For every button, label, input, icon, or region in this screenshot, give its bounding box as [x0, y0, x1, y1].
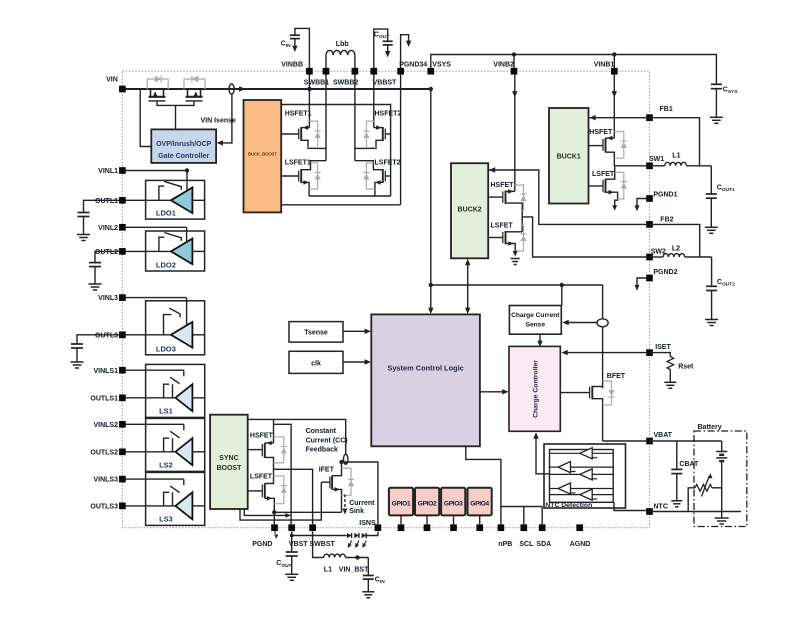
svg-text:L2: L2: [672, 245, 680, 252]
svg-text:System Control Logic: System Control Logic: [387, 363, 463, 372]
svg-text:PGND34: PGND34: [399, 62, 427, 69]
svg-text:VIN Isense: VIN Isense: [201, 117, 237, 124]
svg-text:VINLS3: VINLS3: [93, 477, 118, 484]
svg-text:VINLS2: VINLS2: [93, 422, 118, 429]
svg-text:Charge Controller: Charge Controller: [533, 360, 540, 418]
svg-text:SW1: SW1: [649, 156, 664, 163]
svg-text:CBAT: CBAT: [679, 461, 699, 468]
svg-text:Gate Controller: Gate Controller: [158, 153, 209, 160]
svg-text:LSFET: LSFET: [491, 222, 514, 229]
svg-text:Current: Current: [349, 500, 375, 507]
svg-text:FB2: FB2: [660, 216, 673, 223]
svg-text:HSFET1: HSFET1: [285, 110, 312, 117]
svg-text:OUTL2: OUTL2: [95, 249, 118, 256]
svg-text:GPIO4: GPIO4: [470, 500, 489, 507]
svg-text:BFET: BFET: [607, 373, 626, 380]
svg-text:OVP/Inrush/OCP: OVP/Inrush/OCP: [156, 141, 212, 148]
svg-text:VIN: VIN: [106, 77, 118, 84]
svg-text:LSFET: LSFET: [250, 473, 273, 480]
svg-text:clk: clk: [311, 360, 321, 367]
svg-text:ISET: ISET: [655, 344, 671, 351]
svg-text:OUTLS2: OUTLS2: [90, 449, 118, 456]
svg-text:VINL2: VINL2: [98, 225, 118, 232]
svg-text:BUCK_BOOST: BUCK_BOOST: [248, 152, 277, 157]
svg-text:Sense: Sense: [526, 322, 546, 329]
svg-text:HSFET2: HSFET2: [375, 110, 402, 117]
svg-text:SWBST: SWBST: [310, 541, 336, 548]
svg-text:PGND1: PGND1: [653, 191, 677, 198]
svg-text:SYNC: SYNC: [219, 455, 238, 462]
svg-text:OUTLS1: OUTLS1: [90, 395, 118, 402]
svg-text:VINBB: VINBB: [281, 62, 303, 69]
svg-text:LS2: LS2: [159, 460, 173, 469]
svg-text:FB1: FB1: [660, 106, 673, 113]
svg-text:BUCK2: BUCK2: [458, 207, 482, 214]
svg-text:Feedback: Feedback: [306, 447, 338, 454]
svg-text:L1: L1: [672, 152, 680, 159]
svg-text:Rset: Rset: [678, 363, 694, 370]
svg-text:Lbb: Lbb: [336, 41, 349, 48]
svg-text:OUTLS3: OUTLS3: [90, 504, 118, 511]
svg-text:BOOST: BOOST: [216, 465, 242, 472]
svg-text:BUCK1: BUCK1: [557, 154, 581, 161]
svg-text:Constant: Constant: [306, 428, 337, 435]
svg-text:OUTL3: OUTL3: [95, 332, 118, 339]
svg-text:SCL: SCL: [519, 541, 534, 548]
svg-text:HSFET: HSFET: [250, 432, 274, 439]
svg-text:NTC: NTC: [654, 503, 668, 510]
svg-text:VIN_BST: VIN_BST: [339, 567, 369, 574]
svg-text:LSFET1: LSFET1: [285, 159, 311, 166]
svg-text:IFET: IFET: [319, 466, 335, 473]
svg-text:Sink: Sink: [349, 508, 364, 515]
svg-text:LS3: LS3: [159, 514, 173, 523]
svg-text:L1: L1: [324, 567, 332, 574]
svg-text:VINB1: VINB1: [594, 62, 615, 69]
svg-text:nPB: nPB: [498, 541, 512, 548]
svg-text:HSFET: HSFET: [491, 182, 515, 189]
svg-text:AGND: AGND: [570, 541, 591, 548]
svg-text:NTC Detection: NTC Detection: [545, 502, 592, 509]
svg-text:GPIO3: GPIO3: [444, 500, 463, 507]
svg-text:VINL1: VINL1: [98, 168, 118, 175]
svg-text:Battery: Battery: [698, 424, 722, 431]
svg-text:Tsense: Tsense: [304, 330, 328, 337]
svg-text:HSFET: HSFET: [589, 129, 613, 136]
svg-text:Current (CC): Current (CC): [306, 437, 348, 444]
svg-text:GPIO2: GPIO2: [418, 500, 437, 507]
svg-text:LSFET2: LSFET2: [375, 159, 401, 166]
svg-text:VINL3: VINL3: [98, 295, 118, 302]
svg-text:LDO2: LDO2: [156, 261, 176, 270]
svg-text:OUTL1: OUTL1: [95, 198, 118, 205]
svg-text:PGND2: PGND2: [653, 269, 677, 276]
svg-text:SDA: SDA: [536, 541, 551, 548]
svg-text:LS1: LS1: [159, 406, 173, 415]
svg-text:VINLS1: VINLS1: [93, 368, 118, 375]
svg-text:LDO3: LDO3: [156, 344, 176, 353]
svg-text:VSYS: VSYS: [432, 62, 451, 69]
svg-text:LSFET: LSFET: [592, 171, 615, 178]
svg-text:Charge Current: Charge Current: [511, 312, 560, 319]
svg-text:ISNS: ISNS: [359, 520, 376, 527]
svg-text:PGND: PGND: [252, 541, 272, 548]
svg-text:GPIO1: GPIO1: [392, 500, 411, 507]
svg-text:VBAT: VBAT: [654, 432, 673, 439]
svg-text:VINB2: VINB2: [493, 62, 514, 69]
svg-text:LDO1: LDO1: [156, 209, 176, 218]
svg-text:VBBST: VBBST: [373, 80, 397, 87]
